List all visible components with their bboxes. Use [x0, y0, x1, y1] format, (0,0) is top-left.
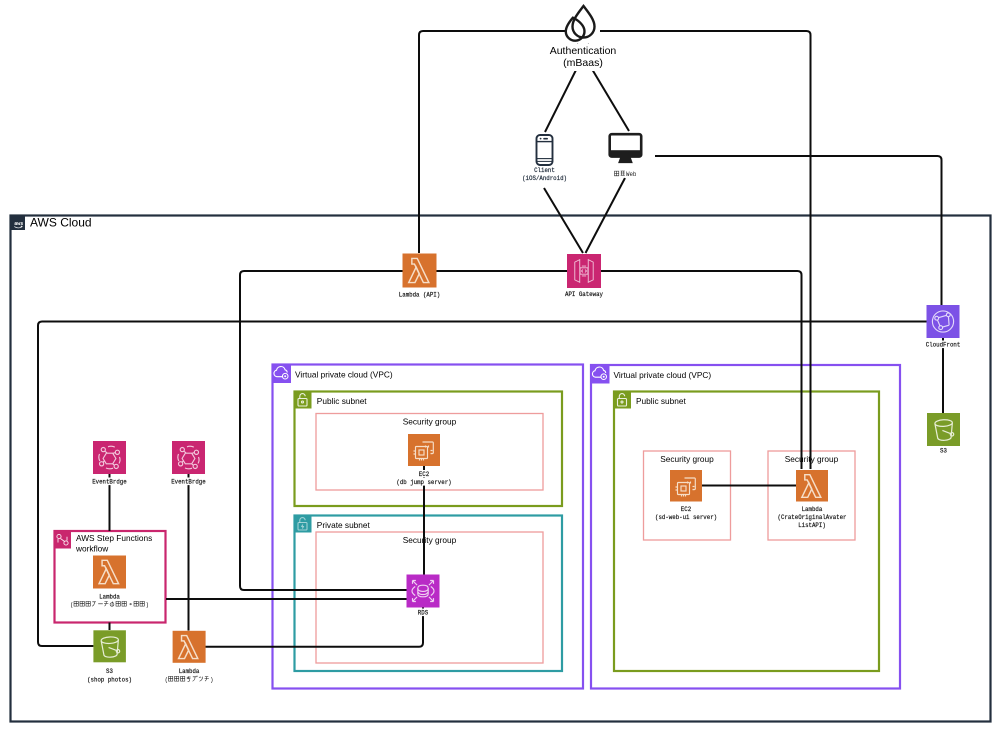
EC2 (sd-web-ui) caption — [654, 505, 718, 522]
svg-text:Lambda: Lambda — [179, 668, 200, 676]
wire Web to API Gateway — [586, 178, 626, 253]
left Public subnet group box — [294, 391, 563, 507]
svg-text:EventBrdge: EventBrdge — [92, 479, 127, 487]
API Gateway icon — [567, 254, 601, 288]
svg-text:(shop photos): (shop photos) — [87, 677, 132, 685]
CloudFront icon — [927, 305, 960, 338]
svg-text:Virtual private cloud (VPC): Virtual private cloud (VPC) — [295, 370, 393, 380]
svg-text:(mBaas): (mBaas) — [563, 57, 603, 69]
wire CloudFront to S3 (shop photos) — [38, 322, 927, 647]
svg-text:(iOS/Android): (iOS/Android) — [522, 175, 567, 183]
EventBridge icon 2 — [172, 441, 205, 474]
S3 caption — [939, 447, 948, 456]
wire Authentication to right Lambda — [600, 31, 811, 469]
svg-text:): ) — [210, 677, 214, 685]
security group box SG4 (right Lambda) — [768, 451, 855, 540]
svg-text:S3: S3 — [106, 668, 113, 676]
svg-text:CloudFront: CloudFront — [926, 342, 961, 350]
Authentication label — [549, 44, 617, 71]
AWS Step Functions workflow group box — [54, 530, 166, 623]
svg-text:(: ( — [165, 677, 169, 685]
svg-text:API Gateway: API Gateway — [565, 291, 603, 299]
svg-text:(sd-web-ui server): (sd-web-ui server) — [655, 514, 717, 522]
svg-text:Lambda: Lambda — [802, 506, 823, 514]
svg-text:): ) — [146, 602, 150, 610]
svg-text:ListAPI): ListAPI) — [798, 522, 826, 530]
S3 icon (right) — [927, 413, 960, 446]
Lambda icon (Step Functions) — [93, 556, 126, 589]
security group box SG1 (left public) — [316, 414, 543, 491]
Client phone icon — [537, 135, 553, 165]
svg-text:AWS Cloud: AWS Cloud — [30, 216, 92, 230]
svg-text:Authentication: Authentication — [550, 45, 617, 57]
wire EventBridge 2 to Lambda (batch) — [188, 474, 190, 631]
wire Web to CloudFront — [655, 156, 942, 305]
wire CloudFront to S3 — [942, 338, 944, 413]
EventBridge 1 caption — [91, 478, 128, 487]
svg-text:Security group: Security group — [660, 454, 714, 464]
svg-text:(db jump server): (db jump server) — [396, 479, 451, 487]
wire EC2 (db jump server) to RDS — [423, 466, 425, 575]
EventBridge icon 1 — [93, 441, 126, 474]
svg-text:(: ( — [70, 602, 74, 610]
Step Functions Lambda caption — [69, 593, 150, 610]
svg-text:Virtual private cloud (VPC): Virtual private cloud (VPC) — [614, 370, 712, 380]
svg-text:Security group: Security group — [403, 535, 457, 545]
right Public subnet group box — [613, 391, 879, 672]
Lambda (API) caption — [398, 290, 441, 299]
Client caption — [521, 166, 568, 183]
wire EventBridge 1 to Step Functions box — [109, 474, 111, 531]
svg-text:Public subnet: Public subnet — [636, 396, 687, 406]
wire API Gateway to right Lambda — [601, 271, 802, 469]
left VPC group box — [272, 364, 584, 689]
svg-text:Private subnet: Private subnet — [317, 520, 371, 530]
RDS icon — [407, 575, 440, 608]
RDS caption — [417, 609, 429, 618]
EventBridge 2 caption — [170, 478, 207, 487]
svg-text:workflow: workflow — [75, 544, 109, 554]
AWS Cloud group box — [11, 216, 991, 722]
svg-text:Web: Web — [626, 171, 636, 179]
EC2 icon (db jump server) — [408, 434, 440, 466]
wire Authentication to Web — [577, 44, 629, 131]
Authentication (mBaas) icon — [564, 6, 595, 42]
Lambda (API) icon — [403, 254, 437, 288]
svg-text:EC2: EC2 — [681, 506, 691, 514]
wire Authentication to Client — [545, 44, 589, 132]
EC2 (db jump server) caption — [395, 470, 452, 487]
wire EC2 (sd-web-ui) to right Lambda — [702, 485, 796, 487]
wire Lambda (batch) to RDS — [206, 608, 424, 647]
簡易Web caption — [613, 170, 637, 179]
right VPC group box — [590, 364, 900, 689]
wire Lambda (API) to RDS — [240, 271, 407, 590]
S3 icon (shop photos) — [93, 630, 126, 662]
svg-text:Security group: Security group — [403, 417, 457, 427]
EC2 icon (sd-web-ui server) — [670, 470, 702, 502]
right Lambda caption — [777, 505, 848, 530]
wire Lambda (API) to API Gateway — [437, 270, 568, 272]
svg-text:Client: Client — [534, 167, 555, 175]
wire Authentication to Lambda (API) — [419, 31, 566, 253]
svg-text:(CrateOriginalAvater: (CrateOriginalAvater — [778, 514, 847, 522]
Lambda (batch) caption — [164, 667, 215, 685]
svg-text:Lambda (API): Lambda (API) — [399, 291, 440, 299]
wire Client to API Gateway — [544, 188, 583, 253]
簡易Web monitor icon — [610, 134, 642, 163]
svg-text:S3: S3 — [940, 448, 947, 456]
svg-text:Public subnet: Public subnet — [317, 396, 368, 406]
CloudFront caption — [925, 341, 962, 350]
svg-text:AWS Step Functions: AWS Step Functions — [76, 533, 152, 543]
svg-text:RDS: RDS — [418, 610, 428, 618]
wire Step Functions box to RDS — [166, 598, 407, 600]
S3 (shop photos) caption — [86, 667, 133, 685]
svg-text:EC2: EC2 — [419, 471, 429, 479]
svg-text:Security group: Security group — [785, 454, 839, 464]
API Gateway caption — [564, 290, 604, 299]
Lambda icon (batch) — [173, 631, 206, 663]
wire Step Functions box to S3 (shop photos) — [109, 623, 111, 631]
security group box SG3 (right EC2) — [644, 451, 731, 540]
security group box SG2 (left private) — [316, 532, 543, 663]
left Private subnet group box — [294, 515, 563, 672]
svg-text:aws: aws — [14, 221, 23, 227]
right Lambda icon — [796, 470, 828, 502]
svg-text:EventBrdge: EventBrdge — [171, 479, 206, 487]
